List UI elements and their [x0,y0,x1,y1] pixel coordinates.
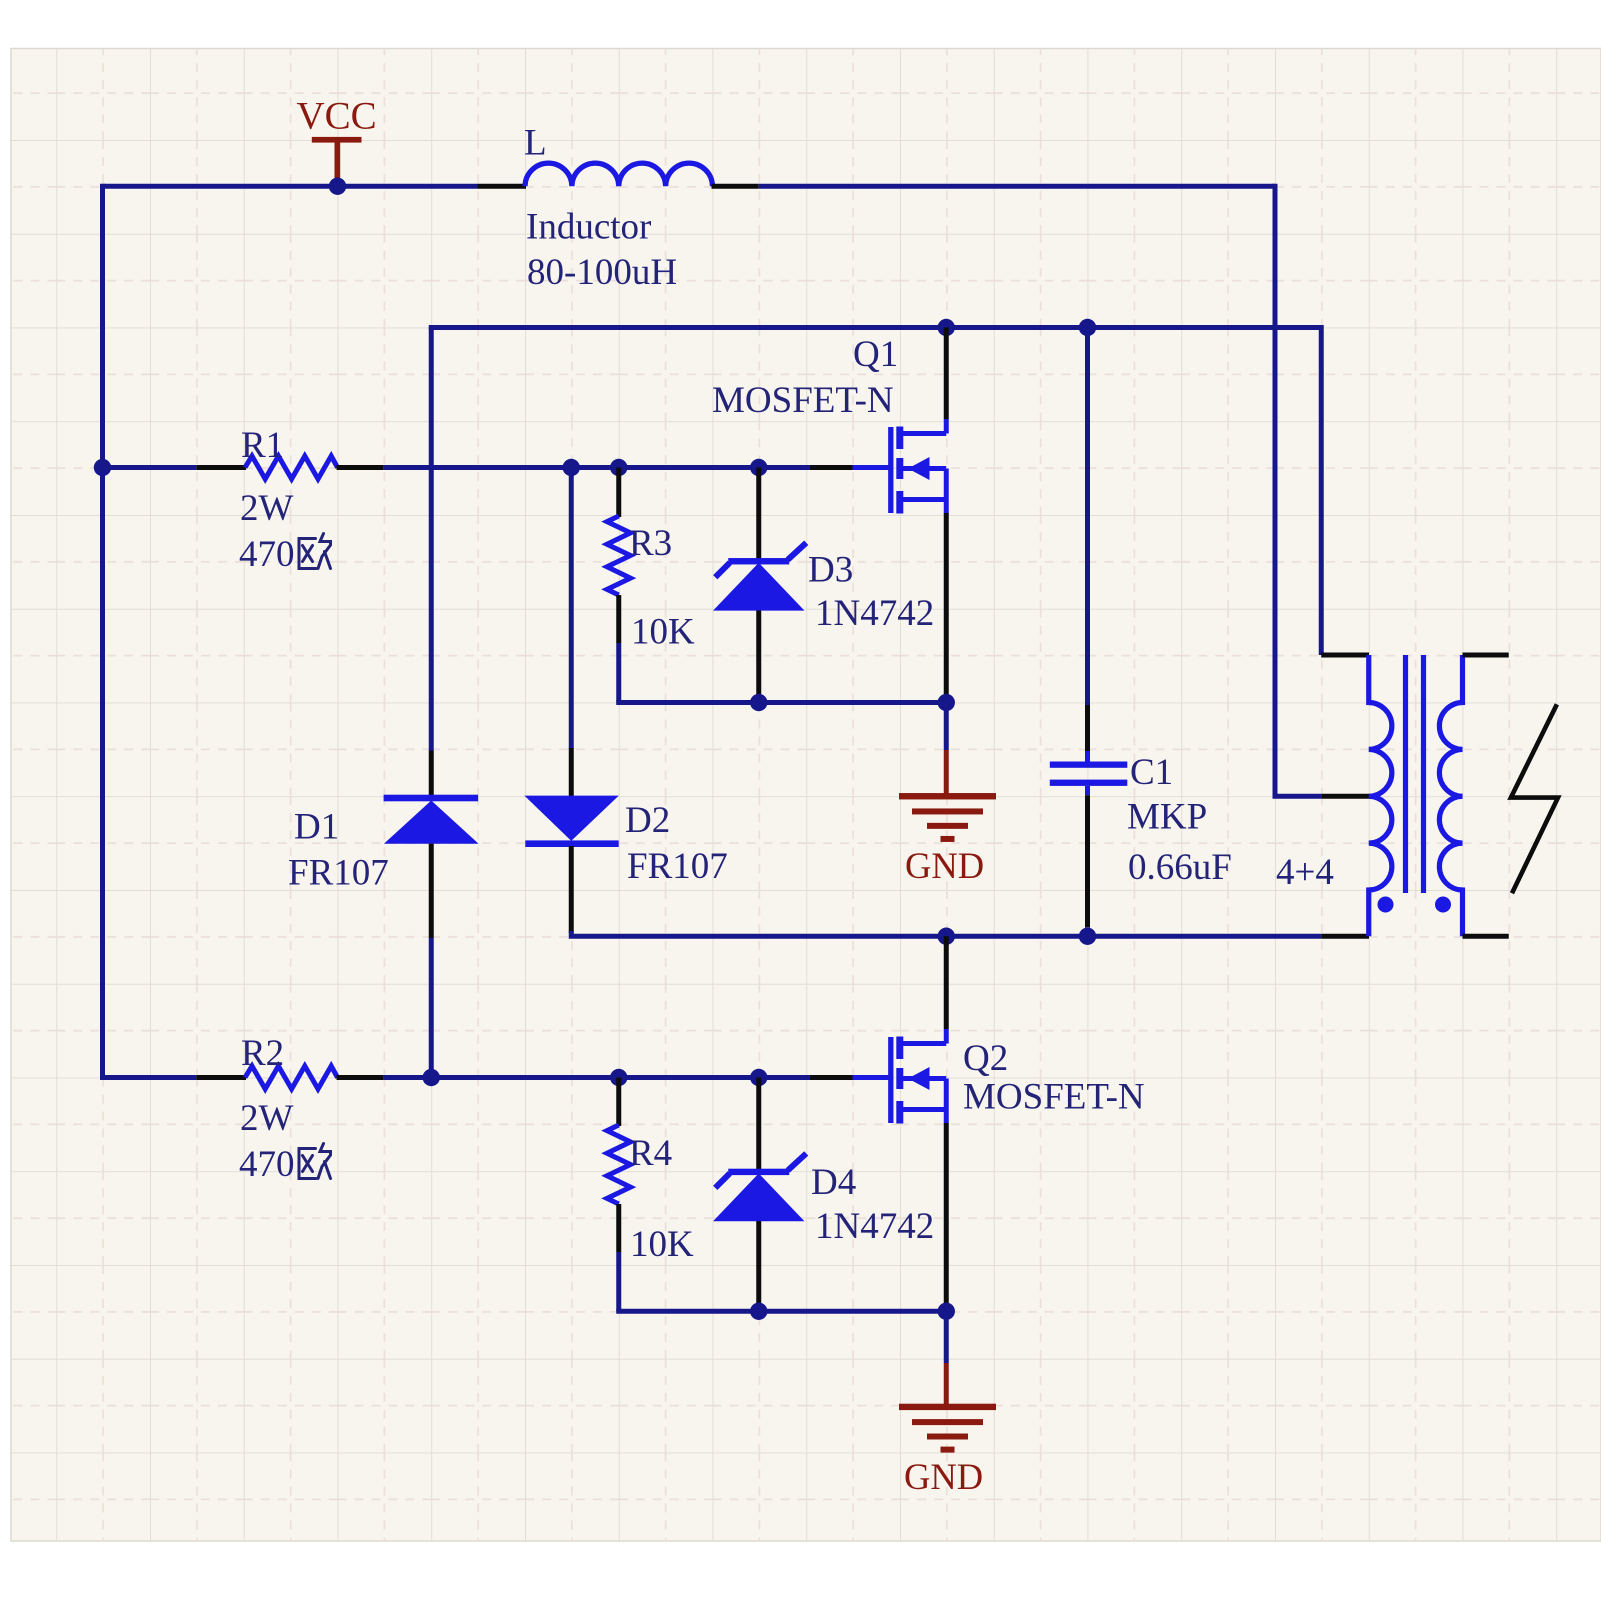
resistor R3 [607,516,631,595]
svg-text:D3: D3 [808,550,853,591]
pin Q1 gate [810,465,854,470]
junction D1 anode rail [423,1069,440,1086]
wire top rail right [759,184,1275,189]
junction Q2 source gnd [938,1303,955,1320]
wire C1 to rail [1085,927,1090,936]
pin D2 anode [569,846,574,933]
transformer T1 primary winding [1369,655,1392,936]
ground GND2 [899,1404,996,1453]
svg-text:L: L [524,123,547,164]
diode D2 [524,796,618,841]
pin secondary bottom [1463,934,1509,939]
pin D1 anode [429,844,434,938]
transformer T1 secondary winding [1439,655,1462,936]
pin C1 bottom black [1085,795,1090,927]
zener diode D4 [713,1153,806,1221]
pin transformer primary bottom [1321,934,1369,939]
svg-text:Inductor: Inductor [526,207,651,248]
svg-text:D1: D1 [294,807,339,848]
svg-text:FR107: FR107 [627,846,728,887]
junction D3 top [750,459,767,476]
glyph ohm-hanzi b [299,1144,331,1179]
pin D4 anode [756,1221,761,1311]
capacitor C1 pin top [1085,328,1090,706]
pin D4 cathode [756,1078,761,1171]
gnd stem 2 [944,1363,949,1406]
wire Q2 source to gnd [944,1311,949,1363]
junction D4 anode [750,1303,767,1320]
svg-text:470: 470 [239,1144,295,1185]
svg-text:1N4742: 1N4742 [815,1206,934,1247]
svg-text:VCC: VCC [297,95,377,138]
resistor R1 [245,456,338,479]
svg-text:Q1: Q1 [853,334,898,375]
glyph ohm-hanzi [299,534,331,569]
diode D1 [384,795,479,802]
junction R3 top [610,459,627,476]
svg-text:1N4742: 1N4742 [815,593,934,634]
capacitor C1 [1085,751,1090,762]
pin Q2 source [944,1123,949,1309]
wire R2 rail mid [384,1075,810,1080]
pin secondary top [1463,653,1509,658]
svg-text:0.66uF: 0.66uF [1128,847,1232,888]
pin R4 bottom [616,1204,621,1252]
junction C1 bottom [1079,928,1096,945]
junction R4 top [610,1069,627,1086]
pin inductor right [712,184,759,189]
pin Q1 source [944,513,949,700]
svg-text:FR107: FR107 [288,853,389,894]
svg-text:R3: R3 [629,523,672,564]
svg-text:MOSFET-N: MOSFET-N [712,380,894,421]
svg-text:470: 470 [239,534,295,575]
pin R1 right [337,465,384,470]
pin R2 left [196,1075,246,1080]
wire R3 D3 bottom rail [619,700,947,703]
gnd stem 1 [944,750,949,795]
svg-text:10K: 10K [630,1224,694,1265]
wire R2 gate rail [103,1075,197,1080]
wire right vertical to center tap [1275,184,1321,797]
wire drain rail Q1 [431,328,1321,656]
zener diode D3 [713,543,806,611]
pin D3 cathode [756,468,761,561]
svg-text:4+4: 4+4 [1276,852,1334,893]
VCC symbol [312,137,362,143]
pin transformer primary top [1321,653,1369,658]
pin R1 left [196,465,246,470]
svg-text:2W: 2W [240,488,294,529]
pin D2 cathode [569,748,574,796]
resistor R2 [245,1066,338,1089]
junction C1 top [1079,319,1096,336]
junction Q2 drain [938,928,955,945]
svg-text:R2: R2 [241,1033,284,1074]
junction left rail R1 [94,459,111,476]
resistor R3 top pin [616,468,621,518]
junction D2 top [563,459,580,476]
svg-text:80-100uH: 80-100uH [527,252,677,293]
pin R3 bottom [616,595,621,643]
svg-text:MKP: MKP [1127,797,1207,838]
ground GND1 [899,793,996,842]
svg-text:Q2: Q2 [963,1038,1008,1079]
svg-text:C1: C1 [1130,752,1173,793]
wire Q1 source to gnd [944,703,949,751]
svg-text:D4: D4 [811,1162,856,1203]
junction D4 top [750,1069,767,1086]
svg-text:GND: GND [905,845,984,886]
inductor L [525,163,713,186]
pin D1 cathode [429,751,434,796]
wire D2 cathode up [569,468,574,750]
junction Q1 drain [938,319,955,336]
resistor R4 [607,1125,631,1204]
phase dot secondary [1435,897,1451,913]
svg-text:D2: D2 [625,800,670,841]
pin R4 top [616,1078,621,1127]
pin C1 top black [1085,705,1090,751]
wire R4 D4 bottom rail [619,1309,947,1311]
wire R4 to bottom rail [616,1252,621,1311]
pin inductor left [478,184,527,189]
pin Q2 gate [810,1075,854,1080]
svg-text:GND: GND [904,1456,983,1497]
phase dot primary [1378,897,1394,913]
transistor Q1 [853,419,947,514]
spark gap [1511,704,1558,893]
transistor Q2 [853,1029,947,1124]
svg-text:2W: 2W [240,1098,294,1139]
junction Q1 source gnd [938,694,955,711]
pin D3 anode [756,611,761,703]
wire VCC top rail [103,184,478,189]
wire source rail (middle) [571,931,1321,936]
pin R2 right [337,1075,384,1080]
junction VCC [329,178,346,195]
pin Q1 drain [944,328,949,420]
wire R1 gate rail mid [384,465,810,470]
transformer core [1403,655,1408,893]
wire D1 anode down [429,938,434,1078]
svg-text:10K: 10K [631,612,695,653]
wire R3 to bottom rail [616,643,621,703]
pin Q2 drain [944,936,949,1029]
svg-text:R1: R1 [241,425,284,466]
junction D3 anode [750,694,767,711]
wire D1 cathode up [429,328,434,752]
wire left vertical rail [100,184,105,1080]
svg-text:R4: R4 [629,1133,672,1174]
pin transformer center tap [1321,794,1369,799]
wire R1 gate rail left [103,465,197,470]
svg-text:MOSFET-N: MOSFET-N [963,1077,1145,1118]
